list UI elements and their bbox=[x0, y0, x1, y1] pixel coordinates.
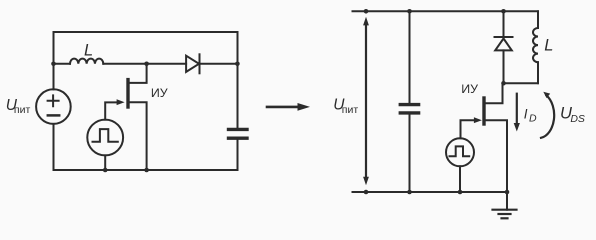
Uпит measurement arrow shaft bbox=[365, 24, 367, 178]
wire: pulse generator bottom to rail bbox=[459, 166, 461, 192]
wire: left circuit bottom rail bbox=[54, 169, 238, 171]
svg-text:D: D bbox=[529, 113, 537, 125]
voltage source circle (left circuit) bbox=[36, 89, 71, 124]
wire: diode branch from top rail bbox=[503, 11, 505, 37]
wire: pulse generator top to gate corner bbox=[105, 102, 120, 119]
wire: diode to right vertical bbox=[200, 63, 238, 65]
wire: pulse generator bottom to rail bbox=[104, 155, 106, 170]
pulse symbol inside generator bbox=[93, 129, 118, 142]
junction dot bottom rail / source-ground bbox=[505, 190, 510, 195]
current ID arrowhead bbox=[514, 123, 520, 132]
junction dot pulse gen/bottom rail bbox=[103, 168, 108, 173]
svg-text:L: L bbox=[544, 37, 553, 55]
pulse generator circle (left circuit) bbox=[87, 120, 123, 156]
junction dot bottom rail / pulse generator bbox=[458, 190, 463, 195]
junction dot left rail/inductor bbox=[51, 62, 56, 67]
wire: loop bottom horizontal bbox=[504, 82, 539, 84]
junction dot bottom rail / capacitor bbox=[407, 190, 412, 195]
junction dot top rail / Uпит arrow bbox=[364, 9, 369, 14]
svg-text:L: L bbox=[84, 42, 93, 60]
wire: diode to loop bottom bbox=[503, 50, 505, 83]
wire: capacitor branch bottom bbox=[409, 115, 411, 192]
ground bar 2 bbox=[499, 213, 511, 215]
junction dot diode line/right vertical bbox=[235, 62, 240, 67]
wire: left circuit right vertical (top rail to capacitor) bbox=[237, 32, 239, 128]
current ID arrow shaft bbox=[516, 94, 518, 124]
diode VD (right circuit) triangle bbox=[495, 39, 512, 51]
wire: left MOSFET drain bbox=[128, 64, 147, 83]
gate arrowhead (right MOSFET) bbox=[474, 117, 482, 123]
wire: left circuit top rail bbox=[54, 31, 238, 33]
inductor L (right circuit) bbox=[533, 28, 538, 62]
inductor L (left circuit) bbox=[70, 59, 103, 64]
junction dot drain/inductor line bbox=[144, 62, 149, 67]
ground bar 1 bbox=[493, 209, 517, 211]
diode VD (right circuit) cathode bar bbox=[495, 36, 513, 38]
transistor channel bar (right MOSFET) bbox=[482, 98, 485, 124]
wire: right MOSFET drain bbox=[484, 83, 503, 103]
ground bar 3 bbox=[502, 217, 508, 219]
pulse generator circle (right circuit) bbox=[446, 138, 474, 166]
wire: left MOSFET source bbox=[128, 102, 147, 170]
wire: right MOSFET source bbox=[484, 120, 507, 192]
gate arrowhead (left MOSFET) bbox=[117, 99, 125, 105]
minus sign inside source bbox=[48, 114, 59, 117]
ground stem bbox=[506, 192, 508, 210]
transistor channel bar (left MOSFET) bbox=[126, 80, 129, 107]
wire: inductor bottom to loop bottom bbox=[537, 62, 539, 83]
wire: inductor line left segment bbox=[54, 63, 71, 65]
svg-text:ИУ: ИУ bbox=[151, 86, 168, 100]
Uпит arrowhead up bbox=[363, 17, 369, 26]
plus sign inside source bbox=[48, 95, 59, 106]
junction dot top rail / capacitor bbox=[407, 9, 412, 14]
capacitor C (right circuit) plates bbox=[400, 105, 418, 113]
junction dot loop bottom / drain bbox=[501, 81, 506, 86]
svg-text:I: I bbox=[524, 106, 528, 121]
diode VD (left circuit) triangle bbox=[186, 56, 199, 72]
UDS arrowhead bbox=[543, 92, 550, 98]
junction dot bottom rail / Uпит arrow bbox=[364, 190, 369, 195]
diode VD (left circuit) cathode bar bbox=[199, 54, 201, 73]
Uпит arrowhead down bbox=[363, 177, 369, 186]
capacitor C (left circuit) plates bbox=[229, 129, 248, 138]
wire: right circuit top rail bbox=[353, 10, 539, 12]
wire: gate line from pulse generator bbox=[461, 120, 475, 138]
junction dot top rail / diode branch bbox=[501, 9, 506, 14]
wire: left circuit left vertical (top rail to source) bbox=[53, 32, 55, 89]
pulse symbol inside right generator bbox=[450, 146, 470, 156]
wire: inductor to diode segment bbox=[103, 63, 186, 65]
wire: capacitor branch top bbox=[409, 11, 411, 103]
wire: inductor branch from top rail corner bbox=[537, 11, 539, 28]
svg-text:ИУ: ИУ bbox=[461, 82, 478, 96]
wire: left circuit left vertical (source to bottom rail) bbox=[53, 124, 55, 170]
wire: right circuit bottom rail bbox=[353, 191, 508, 193]
wire: left circuit right vertical (capacitor to bottom rail) bbox=[237, 140, 239, 170]
junction dot source/bottom rail bbox=[144, 168, 149, 173]
UDS curved arrow arc bbox=[541, 96, 554, 138]
transform arrow between circuits bbox=[267, 106, 299, 109]
